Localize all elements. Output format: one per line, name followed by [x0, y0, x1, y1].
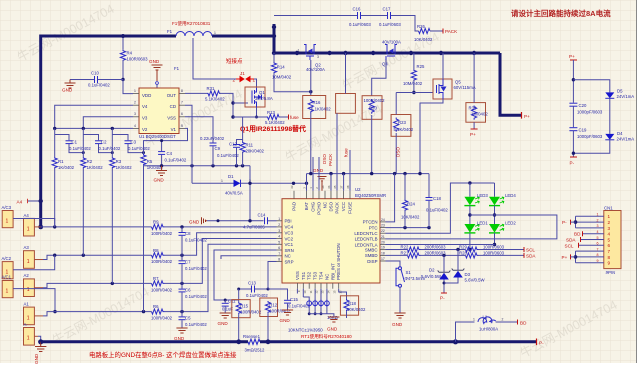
- svg-text:VC1: VC1: [285, 242, 294, 247]
- svg-text:SDA: SDA: [566, 238, 576, 243]
- svg-text:VSS: VSS: [167, 116, 176, 121]
- svg-text:0.1uF/0402: 0.1uF/0402: [69, 146, 91, 151]
- svg-text:请设计主回路能持续过8A电流: 请设计主回路能持续过8A电流: [511, 8, 611, 18]
- svg-text:fuse: fuse: [290, 115, 299, 120]
- resistor R29: [466, 247, 479, 252]
- svg-text:200R/0603: 200R/0603: [425, 244, 447, 249]
- wire R20 down: [371, 115, 373, 174]
- capacitor C4: [161, 141, 163, 152]
- wire VDD: [123, 80, 133, 94]
- svg-text:OUT: OUT: [167, 93, 177, 98]
- CN1 outer pin numbers: [597, 213, 599, 263]
- wire R16 down to DSG line: [310, 113, 312, 174]
- svg-text:A/C1: A/C1: [2, 275, 12, 280]
- svg-text:PACK: PACK: [328, 153, 333, 166]
- svg-text:R18: R18: [348, 301, 356, 306]
- svg-text:2: 2: [502, 318, 504, 322]
- U1 pin stubs: [133, 94, 185, 129]
- wire C13 bridge: [239, 288, 251, 290]
- svg-text:PACK: PACK: [445, 29, 458, 34]
- thermistor RT2: [302, 289, 304, 297]
- svg-text:NC: NC: [323, 202, 328, 208]
- wire SMBC: [386, 249, 408, 251]
- wire R23 down DSO: [395, 133, 397, 174]
- svg-text:GND: GND: [280, 318, 291, 323]
- svg-text:1: 1: [6, 219, 9, 225]
- svg-text:R24: R24: [407, 202, 415, 207]
- svg-text:2: 2: [233, 78, 236, 83]
- svg-text:1: 1: [27, 287, 30, 293]
- svg-text:9PIN: 9PIN: [606, 270, 616, 275]
- svg-text:2: 2: [134, 101, 136, 105]
- transistor Q2: [304, 45, 316, 61]
- svg-text:BD: BD: [574, 232, 581, 237]
- svg-text:R13: R13: [267, 110, 275, 115]
- wire thick to P+ terminal: [500, 53, 521, 115]
- svg-text:0.1uF/0402: 0.1uF/0402: [246, 293, 268, 298]
- svg-text:40V/0.5A: 40V/0.5A: [225, 191, 243, 196]
- svg-text:R26: R26: [417, 24, 425, 29]
- svg-text:R3: R3: [116, 159, 122, 164]
- svg-text:C15: C15: [290, 297, 298, 302]
- svg-text:P+: P+: [569, 54, 575, 59]
- svg-text:7: 7: [278, 252, 280, 256]
- wire Q4 gate: [372, 60, 386, 96]
- wire R3 column: [111, 169, 113, 284]
- wire fuse mid to J1: [193, 38, 236, 79]
- svg-text:P-: P-: [440, 296, 445, 301]
- svg-text:J1: J1: [240, 71, 245, 76]
- svg-text:P+: P+: [562, 255, 568, 260]
- svg-text:5.1K/0402: 5.1K/0402: [394, 127, 414, 132]
- svg-text:6: 6: [181, 112, 183, 116]
- svg-text:0.22uF/0402: 0.22uF/0402: [200, 136, 225, 141]
- svg-text:GND: GND: [313, 168, 324, 173]
- svg-text:24: 24: [381, 218, 385, 222]
- transistor Q1: [245, 87, 265, 107]
- capacitor C15: [268, 289, 288, 300]
- svg-text:1: 1: [221, 179, 223, 183]
- wire body top to rail: [345, 53, 347, 94]
- svg-text:P-: P-: [562, 220, 567, 225]
- svg-text:C5: C5: [185, 315, 191, 320]
- row A2 wire: [43, 283, 152, 287]
- svg-text:VC2: VC2: [285, 236, 294, 241]
- wire CHG PCHO stubs up: [312, 157, 314, 191]
- capacitor C12: [233, 144, 240, 146]
- ground at C5: [176, 328, 187, 333]
- capacitor C19: [569, 127, 577, 129]
- capacitor C10: [70, 79, 94, 81]
- svg-text:35: 35: [333, 185, 337, 189]
- svg-text:1: 1: [214, 31, 216, 35]
- svg-text:1: 1: [278, 217, 280, 221]
- svg-text:P+: P+: [524, 114, 530, 119]
- svg-text:2: 2: [278, 223, 280, 227]
- svg-text:C4: C4: [167, 151, 173, 156]
- svg-text:V2: V2: [142, 127, 148, 132]
- LED4: [494, 183, 496, 197]
- svg-text:R31: R31: [207, 86, 215, 91]
- svg-text:电路板上的GND在整б点В- 这个焊盘位置做单点连接: 电路板上的GND在整б点В- 这个焊盘位置做单点连接: [89, 350, 237, 359]
- svg-text:R22: R22: [401, 244, 409, 249]
- svg-text:C7: C7: [185, 259, 191, 264]
- svg-text:C1: C1: [72, 140, 78, 145]
- svg-text:PBI: PBI: [285, 219, 292, 224]
- transistor Q5: [433, 79, 452, 99]
- svg-text:R14: R14: [277, 65, 285, 70]
- capacitor C16: [357, 12, 359, 19]
- wire R25 bottom to gate line: [413, 80, 415, 93]
- svg-text:F1: F1: [174, 66, 180, 71]
- svg-text:R15: R15: [240, 304, 248, 309]
- svg-text:1: 1: [473, 318, 475, 322]
- diode D5: [605, 92, 614, 98]
- svg-text:D3: D3: [465, 272, 471, 277]
- svg-text:GND: GND: [174, 336, 185, 341]
- svg-text:1: 1: [27, 259, 30, 265]
- node dot: [121, 34, 125, 38]
- svg-text:RT1使用料号R27040180: RT1使用料号R27040180: [301, 333, 352, 340]
- svg-text:R9: R9: [153, 220, 159, 225]
- wire rail end down: [249, 166, 251, 221]
- svg-text:18: 18: [381, 251, 385, 255]
- svg-text:1K/0402: 1K/0402: [87, 165, 104, 170]
- svg-text:短接点: 短接点: [226, 57, 243, 65]
- wire PTC: [386, 227, 430, 229]
- svg-text:1K/0402: 1K/0402: [116, 165, 133, 170]
- svg-text:GND: GND: [149, 59, 160, 64]
- svg-text:VC4: VC4: [285, 225, 294, 230]
- resistor R2: [82, 128, 84, 157]
- wire PTCEN: [386, 174, 395, 222]
- svg-text:VSS: VSS: [295, 271, 300, 280]
- svg-text:R1: R1: [58, 159, 64, 164]
- svg-text:R8: R8: [153, 248, 159, 253]
- svg-text:R12: R12: [269, 302, 277, 307]
- zener D3: [457, 250, 459, 271]
- ground at A- bus: [38, 339, 43, 344]
- IC U2 BQ40Z50 body: [282, 199, 380, 283]
- wire R13 line: [233, 116, 267, 118]
- sheet right border: [636, 0, 638, 363]
- CN1 SDA pin 5: [581, 239, 604, 241]
- wire SRP: [268, 262, 277, 290]
- diode D4: [605, 134, 614, 140]
- net label PACK: [442, 29, 444, 34]
- svg-text:PAD: PAD: [292, 202, 297, 211]
- rail B- node: [144, 165, 251, 167]
- capacitor C3: [112, 135, 128, 141]
- capacitor C5: [179, 316, 186, 318]
- svg-text:D2: D2: [429, 267, 435, 272]
- row A3 wire: [43, 255, 152, 259]
- svg-text:40V/100A: 40V/100A: [382, 40, 401, 45]
- svg-text:1: 1: [27, 336, 30, 342]
- capacitor C2: [83, 135, 98, 141]
- svg-text:V3: V3: [142, 116, 148, 121]
- svg-text:C14: C14: [258, 213, 266, 218]
- svg-text:R6: R6: [153, 304, 159, 309]
- thermistor RT3: [314, 289, 316, 300]
- wire OUT to R31: [185, 92, 207, 94]
- svg-text:S1: S1: [406, 270, 412, 275]
- svg-text:U2: U2: [355, 187, 361, 192]
- terminal P- main: [536, 339, 538, 346]
- svg-text:100R/0603: 100R/0603: [483, 244, 505, 249]
- capacitor C8: [181, 227, 183, 232]
- svg-text:1M/0402: 1M/0402: [471, 112, 488, 117]
- svg-text:LED4: LED4: [505, 193, 516, 198]
- svg-text:A3: A3: [24, 245, 30, 250]
- svg-text:100R/0402: 100R/0402: [151, 231, 173, 236]
- resistor R3: [111, 128, 113, 157]
- wire R5 column: [143, 166, 145, 312]
- zener D2: [443, 255, 445, 272]
- svg-text:A2: A2: [24, 273, 30, 278]
- svg-text:CN1: CN1: [604, 206, 613, 211]
- svg-text:1K/0402: 1K/0402: [58, 165, 75, 170]
- wire B+ top loop thick: [41, 36, 176, 227]
- svg-text:R7: R7: [153, 276, 159, 281]
- svg-text:23: 23: [381, 224, 385, 228]
- svg-text:5: 5: [278, 240, 280, 244]
- wire V4: [55, 105, 133, 128]
- svg-text:3: 3: [278, 229, 280, 233]
- svg-text:SDA: SDA: [526, 253, 536, 258]
- svg-text:BAT: BAT: [304, 202, 309, 211]
- ground at S1: [394, 313, 405, 318]
- resistor R7: [152, 281, 165, 286]
- svg-text:0.1uF/0402: 0.1uF/0402: [165, 158, 187, 163]
- svg-text:C12: C12: [229, 142, 237, 147]
- svg-text:100R/0402: 100R/0402: [151, 287, 173, 292]
- svg-text:20: 20: [381, 241, 385, 245]
- wire LEDCNTLB: [386, 215, 557, 239]
- svg-text:10M/0402: 10M/0402: [272, 75, 292, 80]
- svg-text:C20: C20: [579, 103, 587, 108]
- svg-text:1: 1: [253, 78, 256, 83]
- svg-text:A1: A1: [24, 301, 30, 306]
- svg-text:100R/0603: 100R/0603: [127, 57, 149, 62]
- svg-text:V4: V4: [142, 104, 148, 109]
- resistor R9: [152, 224, 165, 229]
- wire R14 to Q2 gate node: [274, 73, 311, 92]
- svg-text:Φ4*3.5mm: Φ4*3.5mm: [405, 276, 426, 281]
- CN1 BD pin 4: [583, 233, 604, 235]
- svg-text:A-: A-: [24, 322, 29, 327]
- svg-text:0.1uF/0402: 0.1uF/0402: [185, 238, 207, 243]
- svg-text:1uH/800A: 1uH/800A: [479, 327, 498, 332]
- net label SDA: [523, 253, 525, 258]
- svg-text:R16: R16: [313, 100, 321, 105]
- resistor R14: [273, 53, 275, 62]
- wire Q5 gate line: [396, 92, 433, 94]
- net label BD: [517, 320, 519, 325]
- transistor Q4: [385, 45, 397, 61]
- svg-text:C19: C19: [579, 128, 587, 133]
- op-amp U1 body BQ29400: [139, 88, 179, 134]
- svg-text:5.6V/0.5W: 5.6V/0.5W: [465, 277, 486, 282]
- svg-text:100R/0402: 100R/0402: [364, 98, 386, 103]
- resistor R21: [408, 253, 421, 258]
- svg-text:6: 6: [608, 243, 611, 248]
- svg-text:R28: R28: [459, 251, 467, 256]
- svg-text:PTCEN: PTCEN: [363, 220, 378, 225]
- CN1 P+ group pins 7-9: [576, 250, 604, 252]
- svg-text:4: 4: [278, 235, 280, 239]
- svg-text:C8: C8: [185, 231, 191, 236]
- svg-text:C18: C18: [433, 196, 441, 201]
- svg-text:C6: C6: [185, 288, 191, 293]
- svg-text:RBI_INT: RBI_INT: [330, 263, 335, 280]
- CN1 P- group pins 1-3: [576, 215, 604, 217]
- wire SRN: [214, 250, 277, 300]
- svg-text:DSO: DSO: [396, 147, 401, 157]
- row A4 wire: [41, 226, 152, 228]
- U2 pin numbers: [278, 217, 385, 262]
- svg-text:SCL: SCL: [526, 248, 535, 253]
- svg-text:R25: R25: [417, 64, 425, 69]
- svg-text:38: 38: [346, 185, 350, 189]
- wire R2 column: [82, 169, 84, 256]
- capacitor C18: [428, 174, 430, 197]
- svg-text:0.1uF/0402: 0.1uF/0402: [99, 146, 121, 151]
- svg-text:10KNTC±1%3950: 10KNTC±1%3950: [288, 328, 323, 333]
- svg-text:BQ40Z50RSMR: BQ40Z50RSMR: [355, 193, 386, 198]
- capacitor C7: [179, 260, 186, 262]
- svg-text:C16: C16: [353, 7, 361, 12]
- svg-text:C10: C10: [91, 71, 99, 76]
- svg-text:0.1uF/0603: 0.1uF/0603: [349, 22, 371, 27]
- svg-text:Q5: Q5: [455, 80, 461, 85]
- svg-text:GND: GND: [327, 327, 338, 332]
- capacitor C17: [387, 12, 389, 19]
- capacitor C1: [55, 135, 69, 141]
- CN1 inner pin numbers: [608, 214, 611, 265]
- svg-text:34: 34: [321, 185, 325, 189]
- svg-text:60V/115mA: 60V/115mA: [454, 85, 476, 90]
- svg-text:0.1uF/0603: 0.1uF/0603: [379, 22, 401, 27]
- svg-text:R20: R20: [369, 106, 377, 111]
- resistor R25: [413, 53, 415, 69]
- svg-text:10K/0402: 10K/0402: [401, 215, 420, 220]
- svg-text:0.1uF/0402: 0.1uF/0402: [217, 153, 239, 158]
- svg-text:5: 5: [181, 124, 183, 128]
- svg-text:C9: C9: [215, 146, 221, 151]
- svg-text:GND: GND: [189, 219, 200, 224]
- svg-text:1: 1: [27, 315, 30, 321]
- svg-text:F1使用R27010831: F1使用R27010831: [172, 20, 211, 27]
- resistor R23: [391, 115, 411, 137]
- svg-text:3: 3: [317, 55, 319, 59]
- resistor R4: [122, 36, 124, 50]
- svg-text:100R/0402: 100R/0402: [151, 259, 173, 264]
- svg-text:24V/1mA: 24V/1mA: [617, 94, 635, 99]
- switch S1: [386, 261, 401, 267]
- svg-text:CHG: CHG: [311, 201, 316, 211]
- wire J1 to Q1 drain: [254, 79, 257, 88]
- svg-text:PRES or SHUTDN: PRES or SHUTDN: [336, 243, 341, 280]
- svg-text:GND: GND: [34, 353, 39, 364]
- svg-text:D1: D1: [228, 174, 234, 179]
- svg-text:7: 7: [181, 101, 183, 105]
- LED2: [489, 224, 500, 233]
- thermistor RT5: [326, 289, 328, 300]
- LED1: [464, 224, 475, 233]
- svg-text:A4: A4: [24, 213, 30, 218]
- svg-text:100R/0603: 100R/0603: [483, 251, 505, 256]
- wire PACK sense thin top: [274, 15, 357, 17]
- capacitor C9: [210, 142, 217, 144]
- svg-text:D4: D4: [617, 131, 623, 136]
- resistor R30: [466, 103, 486, 123]
- svg-text:4: 4: [608, 232, 611, 237]
- capacitor C6: [179, 288, 186, 290]
- wire PBI line: [207, 220, 264, 222]
- svg-text:SCL: SCL: [565, 243, 574, 248]
- LED3: [469, 183, 471, 197]
- svg-text:3: 3: [608, 226, 611, 231]
- svg-text:9: 9: [608, 261, 611, 266]
- svg-text:R29: R29: [459, 244, 467, 249]
- wire Q5 drain to rail: [442, 53, 444, 79]
- svg-text:1: 1: [6, 289, 9, 295]
- svg-text:33: 33: [290, 185, 294, 189]
- svg-text:VDD: VDD: [142, 93, 151, 98]
- svg-text:100R/0402: 100R/0402: [151, 316, 173, 321]
- svg-text:2: 2: [608, 220, 611, 225]
- resistor R22: [408, 247, 421, 252]
- svg-text:0.1uF/0402: 0.1uF/0402: [185, 322, 207, 327]
- svg-text:3mΩ/2512: 3mΩ/2512: [245, 348, 266, 353]
- svg-text:0.1uF/0402: 0.1uF/0402: [426, 208, 448, 213]
- svg-text:3: 3: [134, 112, 136, 116]
- svg-text:TS1: TS1: [301, 271, 306, 280]
- svg-text:DISP: DISP: [367, 259, 377, 264]
- resistor R13: [267, 114, 280, 119]
- svg-text:6: 6: [278, 246, 280, 250]
- capacitor C14: [264, 217, 266, 224]
- wire LEDCNTLA: [386, 244, 495, 246]
- wire R31 to Q1 gate: [220, 93, 234, 117]
- svg-text:SRP: SRP: [285, 259, 294, 264]
- U2 pin stubs: [277, 191, 386, 289]
- svg-text:5.1K/0402: 5.1K/0402: [265, 120, 285, 125]
- row A1 wire: [43, 312, 152, 316]
- resistor R18: [339, 289, 347, 299]
- resistor R16: [303, 96, 326, 119]
- wire Q1 source down: [256, 107, 258, 117]
- CN1 SCL pin 6: [579, 244, 604, 246]
- svg-text:36: 36: [327, 185, 331, 189]
- svg-text:DSO: DSO: [322, 154, 327, 164]
- svg-text:NC: NC: [285, 254, 291, 259]
- svg-text:C3: C3: [131, 140, 137, 145]
- wire thermistor commons: [309, 314, 334, 317]
- svg-text:TS3: TS3: [313, 271, 318, 280]
- resistor R31: [207, 91, 220, 96]
- svg-text:NC: NC: [324, 274, 329, 280]
- svg-text:7: 7: [608, 249, 611, 254]
- svg-text:1: 1: [608, 214, 611, 219]
- resistor R20: [362, 96, 382, 120]
- svg-text:10M/0402: 10M/0402: [403, 81, 423, 86]
- svg-text:11: 11: [309, 290, 313, 293]
- svg-text:LEDCNTLC: LEDCNTLC: [354, 231, 377, 236]
- wire Q5 source to DSO: [420, 99, 443, 174]
- svg-text:5.1K/0402: 5.1K/0402: [311, 107, 331, 112]
